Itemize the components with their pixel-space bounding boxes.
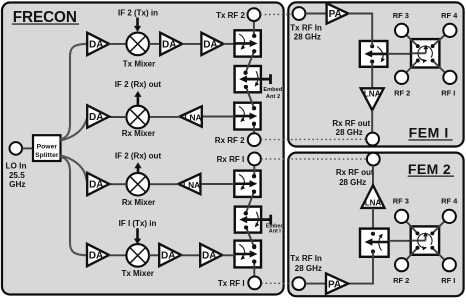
svg-text:LNA: LNA bbox=[365, 198, 382, 207]
label Rx RF out 28 GHz FEM2 bbox=[336, 168, 374, 187]
svg-text:RF I: RF I bbox=[441, 88, 455, 97]
wire mixer to DA2 row4 bbox=[149, 254, 159, 256]
amplifier PA FEM1 bbox=[327, 3, 349, 23]
wire Tx switch to antenna switch Ant2 bbox=[243, 49, 256, 75]
wire LNA to switch FEM2 bbox=[372, 208, 374, 229]
connector Rx RF out FEM2 bbox=[367, 153, 380, 166]
svg-text:Power: Power bbox=[37, 144, 58, 151]
label Rx RF 1 bbox=[217, 155, 245, 164]
amplifier LNA row3 bbox=[178, 174, 200, 194]
amplifier DA row4 LO bbox=[87, 244, 109, 266]
svg-text:Tx RF I: Tx RF I bbox=[218, 279, 245, 288]
connector Tx RF In FEM1 bbox=[293, 7, 306, 20]
svg-text:DA: DA bbox=[89, 251, 103, 262]
switch antenna Embed Ant 2 bbox=[235, 66, 271, 92]
mixer Rx Mixer lower bbox=[122, 173, 155, 207]
wire splitter to row3 DA bbox=[61, 156, 88, 184]
wire Tx RF In to PA FEM2 bbox=[305, 283, 326, 285]
label RF 1 FEM2 bbox=[441, 276, 455, 285]
label RF 2 FEM2 bbox=[393, 276, 409, 285]
wire mixer to DA row2 bbox=[109, 116, 126, 118]
svg-text:Rx RF I: Rx RF I bbox=[217, 155, 245, 164]
wire RF1 stub FEM1 bbox=[431, 59, 450, 78]
amplifier DA row1 LO bbox=[87, 33, 109, 55]
label Rx RF out 28 GHz FEM1 bbox=[332, 119, 370, 137]
connector Tx RF 1 bbox=[248, 277, 261, 290]
connector RF 4 FEM2 bbox=[443, 210, 456, 223]
svg-text:DA: DA bbox=[202, 251, 216, 262]
amplifier LNA FEM1 bbox=[361, 88, 384, 110]
wire antenna switch to Rx switch Ant2 bbox=[244, 85, 256, 111]
wire Rx switch to LNA row2 bbox=[202, 116, 235, 118]
arrow IF 2 (Tx) in input bbox=[134, 18, 141, 32]
connector RF 3 FEM1 bbox=[395, 24, 408, 37]
svg-text:Embed: Embed bbox=[263, 87, 282, 93]
label IF 2 (Rx) out row3 bbox=[115, 151, 162, 160]
connector RF 1 FEM2 bbox=[443, 258, 456, 271]
svg-text:Tx Mixer: Tx Mixer bbox=[123, 60, 155, 69]
switch SP4T FEM1 bbox=[411, 39, 439, 67]
switch SP4T FEM2 bbox=[411, 226, 439, 254]
svg-text:RF 2: RF 2 bbox=[393, 276, 409, 285]
svg-text:LNA: LNA bbox=[184, 113, 201, 123]
wire splitter to row1 DA bbox=[61, 44, 88, 140]
wire DA2 to DA3 row4 bbox=[181, 254, 200, 256]
label Tx RF In 28 GHz FEM2 bbox=[290, 254, 322, 273]
label Embed Ant 2 bbox=[263, 87, 282, 100]
svg-text:Tx RF In: Tx RF In bbox=[290, 254, 322, 263]
label RF 3 FEM1 bbox=[393, 11, 409, 20]
wire Rx switch to LNA row3 bbox=[200, 183, 234, 185]
svg-text:PA: PA bbox=[328, 279, 341, 290]
power splitter bbox=[33, 135, 61, 161]
svg-text:RF 2: RF 2 bbox=[394, 88, 410, 97]
svg-text:RF 3: RF 3 bbox=[393, 11, 409, 20]
amplifier DA row4 second bbox=[159, 244, 181, 266]
arrow IF 1 (Tx) in input bbox=[134, 228, 141, 244]
wire mixer to DA row3 bbox=[109, 183, 126, 185]
wire antenna switch to Tx switch Ant1 bbox=[244, 225, 256, 249]
connector LO In bbox=[10, 142, 23, 155]
wire DA to Tx mixer row4 bbox=[109, 254, 126, 256]
wire LNA to Rx mixer row2 bbox=[149, 116, 180, 118]
arrow IF 2 (Rx) out output lower bbox=[134, 162, 141, 173]
wire PA to switch FEM2 bbox=[348, 252, 373, 284]
label FEM 2 bbox=[408, 161, 454, 177]
mixer Rx Mixer IF2 bbox=[122, 106, 155, 138]
amplifier DA row4 third bbox=[200, 244, 222, 266]
svg-text:IF 2 (Tx) in: IF 2 (Tx) in bbox=[118, 9, 158, 18]
connector Rx RF 1 bbox=[248, 153, 261, 166]
label IF 1 (Tx) in bbox=[119, 219, 157, 228]
mixer Tx Mixer IF1 bbox=[121, 244, 153, 278]
switch SPDT Tx Ant1 bbox=[235, 241, 262, 268]
svg-text:DA: DA bbox=[203, 40, 217, 51]
connector Rx RF 2 bbox=[248, 133, 261, 146]
label RF 4 FEM2 bbox=[441, 196, 458, 205]
wire Rx switch to antenna switch Ant1 bbox=[244, 190, 256, 216]
label Tx RF 1 bbox=[218, 279, 245, 288]
amplifier DA row1 third bbox=[201, 33, 223, 55]
wire LNA to Rx RF out FEM1 bbox=[371, 110, 373, 133]
label FEM 1 bbox=[408, 125, 452, 141]
dotted link Tx RF 2 to FEM1 Tx RF In bbox=[260, 13, 292, 15]
svg-text:Ant 2: Ant 2 bbox=[266, 94, 280, 100]
switch SPDT Rx Ant1 bbox=[234, 171, 260, 197]
wire PA to switch FEM1 bbox=[348, 14, 372, 46]
switch antenna Embed Ant 1 bbox=[235, 207, 271, 233]
svg-text:GHz: GHz bbox=[9, 180, 25, 189]
module FEM 1 enclosure bbox=[288, 2, 463, 146]
label RF 2 FEM1 bbox=[394, 88, 410, 97]
svg-text:Rx RF out: Rx RF out bbox=[336, 168, 374, 177]
amplifier LNA row2 bbox=[180, 106, 202, 126]
label Rx RF 2 bbox=[215, 136, 245, 145]
connector RF 1 FEM1 bbox=[443, 71, 456, 84]
switch SPDT Tx Ant2 bbox=[235, 30, 261, 56]
wire Rx RF 1 connector to Rx switch bbox=[252, 165, 256, 178]
amplifier LNA FEM2 bbox=[362, 185, 385, 208]
connector RF 4 FEM1 bbox=[443, 24, 456, 37]
wire LO In to power splitter bbox=[22, 147, 33, 149]
label FRECON bbox=[12, 9, 79, 26]
wire switch to SP4T FEM2 bbox=[389, 240, 411, 242]
svg-text:IF 2 (Rx) out: IF 2 (Rx) out bbox=[115, 151, 162, 160]
svg-text:28 GHz: 28 GHz bbox=[294, 33, 321, 42]
amplifier DA row3 LO bbox=[87, 173, 109, 195]
wire RF4 stub FEM2 bbox=[430, 216, 449, 235]
svg-text:Tx RF In: Tx RF In bbox=[290, 23, 322, 32]
wire Tx RF In to PA FEM1 bbox=[305, 13, 326, 15]
wire RF4 stub FEM1 bbox=[431, 30, 450, 48]
wire switch to SP4T FEM1 bbox=[387, 53, 411, 55]
wire RF3 stub FEM2 bbox=[402, 216, 420, 235]
svg-text:25.5: 25.5 bbox=[9, 171, 25, 180]
dotted link Tx RF 1 to FEM2 Tx RF In bbox=[261, 282, 292, 284]
svg-text:PA: PA bbox=[329, 9, 342, 20]
svg-text:Rx RF 2: Rx RF 2 bbox=[215, 136, 245, 145]
switch SPDT Rx Ant2 bbox=[234, 103, 260, 130]
mixer Tx Mixer IF2 bbox=[123, 33, 155, 69]
svg-text:RF 4: RF 4 bbox=[441, 11, 458, 20]
amplifier DA row1 second bbox=[160, 33, 182, 55]
label IF 2 (Rx) out row2 bbox=[115, 80, 162, 89]
module FRECON enclosure bbox=[2, 3, 284, 295]
svg-text:DA: DA bbox=[89, 40, 103, 51]
svg-text:28 GHz: 28 GHz bbox=[336, 128, 363, 137]
wire splitter to row2 DA bbox=[61, 117, 88, 141]
svg-text:LNA: LNA bbox=[364, 89, 381, 98]
svg-text:Ant I: Ant I bbox=[269, 229, 281, 235]
amplifier DA row2 LO bbox=[87, 105, 109, 127]
wire Tx RF 2 connector to switch bbox=[252, 21, 256, 38]
svg-text:DA: DA bbox=[89, 180, 103, 191]
connector Rx RF out FEM1 bbox=[366, 133, 379, 146]
svg-text:DA: DA bbox=[162, 40, 176, 51]
svg-text:Tx RF 2: Tx RF 2 bbox=[216, 11, 245, 20]
label IF 2 (Tx) in bbox=[118, 9, 158, 18]
svg-text:DA: DA bbox=[89, 112, 103, 123]
module FEM 2 enclosure bbox=[288, 153, 463, 297]
svg-text:Rx Mixer: Rx Mixer bbox=[122, 129, 155, 138]
svg-text:Rx Mixer: Rx Mixer bbox=[122, 198, 155, 207]
svg-text:RF 3: RF 3 bbox=[393, 196, 409, 205]
svg-text:IF 2 (Rx) out: IF 2 (Rx) out bbox=[115, 80, 162, 89]
svg-text:Rx RF out: Rx RF out bbox=[332, 119, 370, 128]
wire Rx RF out to LNA FEM2 bbox=[372, 166, 374, 186]
wire splitter to row4 DA bbox=[61, 157, 88, 256]
connector Tx RF 2 bbox=[248, 8, 261, 21]
wire RF1 stub FEM2 bbox=[430, 246, 449, 265]
wire switch to LNA FEM1 bbox=[371, 63, 373, 89]
arrow IF 2 (Rx) out output bbox=[134, 91, 141, 106]
wire RF3 stub FEM1 bbox=[402, 30, 420, 48]
label Embed Ant 1 bbox=[266, 224, 284, 235]
svg-text:Tx Mixer: Tx Mixer bbox=[121, 269, 153, 278]
wire RF2 stub FEM1 bbox=[402, 59, 420, 78]
svg-text:LNA: LNA bbox=[183, 180, 200, 190]
switch Tx/Rx FEM1 bbox=[360, 41, 388, 67]
connector RF 2 FEM2 bbox=[395, 258, 408, 271]
dotted link Rx RF 2 to FEM1 Rx RF out bbox=[261, 138, 366, 140]
wire DA to Tx mixer row1 bbox=[109, 43, 126, 45]
connector RF 3 FEM2 bbox=[395, 210, 408, 223]
label RF 4 FEM1 bbox=[441, 11, 458, 20]
wire LNA to Rx mixer row3 bbox=[149, 183, 178, 185]
wire DA2 to DA3 row1 bbox=[182, 43, 201, 45]
amplifier PA FEM2 bbox=[326, 273, 348, 293]
svg-text:RF 4: RF 4 bbox=[441, 196, 458, 205]
dotted link Rx RF 1 to FEM2 Rx RF out bbox=[261, 158, 367, 160]
svg-text:LO In: LO In bbox=[6, 161, 27, 170]
svg-text:Splitter: Splitter bbox=[35, 152, 59, 159]
switch Tx/Rx FEM2 bbox=[360, 229, 389, 257]
label RF 3 FEM2 bbox=[393, 196, 409, 205]
wire RF2 stub FEM2 bbox=[402, 246, 420, 265]
svg-text:RF I: RF I bbox=[441, 276, 455, 285]
svg-text:DA: DA bbox=[161, 251, 175, 262]
svg-text:FEM 2: FEM 2 bbox=[408, 161, 451, 177]
svg-text:28 GHz: 28 GHz bbox=[295, 264, 322, 273]
svg-text:IF I (Tx) in: IF I (Tx) in bbox=[119, 219, 157, 228]
wire mixer to DA2 row1 bbox=[149, 43, 160, 45]
wire DA3 to Tx switch row1 bbox=[223, 43, 234, 45]
wire DA3 to Tx switch row4 bbox=[222, 254, 234, 256]
label Tx RF In 28 GHz FEM1 bbox=[290, 23, 322, 41]
label Tx RF 2 bbox=[216, 11, 245, 20]
connector Tx RF In FEM2 bbox=[292, 277, 305, 290]
wire Rx switch to Rx RF 2 connector bbox=[252, 122, 256, 133]
label RF 1 FEM1 bbox=[441, 88, 455, 97]
connector RF 2 FEM1 bbox=[395, 71, 408, 84]
wire Tx switch to Tx RF 1 connector bbox=[252, 260, 256, 277]
label LO In 25.5 GHz bbox=[6, 161, 27, 189]
svg-text:28 GHz: 28 GHz bbox=[339, 178, 366, 187]
svg-text:FEM I: FEM I bbox=[409, 125, 449, 141]
